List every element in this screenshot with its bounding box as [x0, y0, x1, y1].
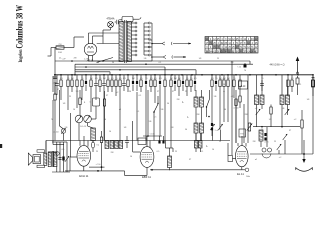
svg-text:∿700: ∿700: [95, 163, 101, 166]
block capacitor at x=86: [85, 75, 87, 91]
svg-text:2M: 2M: [103, 78, 106, 80]
svg-text:10: 10: [109, 131, 111, 133]
label 440 Ω/65 ∼ Ω: [270, 64, 285, 67]
value label: [219, 78, 222, 80]
caps row under switch: [158, 136, 164, 144]
resistor at x=82: [81, 75, 83, 100]
svg-text:30Ω: 30Ω: [58, 52, 62, 54]
svg-text:2M: 2M: [245, 114, 248, 116]
wires above right IF: [257, 75, 288, 95]
junction dots on rails: [71, 60, 147, 70]
IF coil pair at x194 above output: [195, 133, 203, 152]
mains switch contacts: [149, 40, 153, 58]
trimmer circle on output column: [56, 152, 60, 156]
svg-text:0.1: 0.1: [139, 95, 142, 97]
value label: [107, 78, 109, 80]
IF transformer T3 primary: [255, 95, 259, 105]
svg-text:0.5: 0.5: [119, 78, 122, 80]
resistor at x=100: [99, 75, 101, 92]
resistor at x=171: [170, 75, 172, 96]
long vertical x137: [136, 92, 138, 141]
svg-text:5: 5: [86, 78, 87, 80]
svg-text:2M: 2M: [231, 62, 234, 64]
parts/voltage table: [205, 37, 258, 54]
svg-text:70: 70: [244, 70, 246, 72]
trimmer with arrow (C+40): [53, 90, 65, 141]
IF T2 lower pair primary: [194, 123, 198, 133]
IF transformer T2 primary: [194, 97, 198, 107]
capacitor next to lamp: [115, 20, 122, 24]
svg-text:10: 10: [104, 119, 106, 121]
svg-text:10: 10: [223, 84, 225, 86]
tube2 wires: [133, 121, 150, 175]
junction dots on bus: [54, 74, 314, 76]
value label: [170, 78, 173, 80]
value label: [174, 78, 177, 80]
svg-text:10: 10: [224, 109, 226, 111]
value label: [164, 78, 166, 80]
svg-text:25: 25: [164, 78, 166, 80]
label EBF11: [142, 175, 151, 179]
tube3 base circle: [242, 168, 249, 172]
tube heater wires down: [89, 56, 93, 61]
resistor at x=313: [312, 75, 314, 96]
svg-text:0.1: 0.1: [291, 78, 294, 80]
svg-text:0.1: 0.1: [111, 78, 114, 80]
svg-text:σ1: σ1: [59, 58, 61, 60]
svg-text:∿2F: ∿2F: [61, 58, 66, 61]
svg-text:∿Ω: ∿Ω: [96, 144, 100, 147]
capacitor C-left: [53, 77, 58, 85]
svg-text:10: 10: [107, 78, 109, 80]
value label: [60, 78, 63, 80]
svg-text:1/4: 1/4: [307, 99, 310, 101]
resistor at x=234: [233, 75, 235, 98]
value label: [312, 78, 315, 80]
field coil: [44, 153, 47, 165]
resistor at x=179: [178, 75, 180, 96]
electrolytic can: [89, 98, 99, 113]
svg-text:1M: 1M: [227, 78, 230, 80]
IF transformer T4 secondary: [286, 95, 290, 105]
svg-text:∿2: ∿2: [231, 95, 234, 98]
resistor at x=292: [291, 75, 293, 92]
wire gang to coil: [79, 113, 102, 141]
value label: [233, 78, 235, 80]
speaker magnet block: [33, 155, 41, 164]
svg-text:5: 5: [240, 78, 241, 80]
fuse above transformer: [122, 17, 141, 23]
main HT bus y74.8: [54, 74, 313, 76]
resistor at x=68: [67, 75, 69, 110]
output transformer core: [52, 151, 53, 167]
svg-text:1M: 1M: [223, 78, 226, 80]
svg-text:70: 70: [261, 78, 263, 80]
coil top wires: [166, 141, 174, 153]
svg-text:50: 50: [167, 103, 169, 105]
black caps right: [264, 133, 266, 141]
earth arc symbol: [296, 168, 313, 172]
resistor at x=212: [211, 75, 213, 122]
label L mid: [187, 115, 189, 119]
voltage selector taps (left column): [132, 22, 138, 56]
svg-text:σ1: σ1: [119, 109, 121, 111]
svg-text:2M: 2M: [197, 114, 200, 116]
svg-text:ECH 11: ECH 11: [79, 174, 89, 178]
switch S2: [206, 90, 210, 117]
value label: [95, 78, 98, 80]
svg-text:∿2: ∿2: [255, 107, 258, 110]
mains connector upper lead: [152, 42, 191, 45]
resistor at x=128: [127, 75, 129, 92]
left speaker feed wires: [45, 141, 47, 153]
svg-text:25: 25: [185, 91, 187, 93]
output network verticals: [52, 142, 70, 172]
rail net2 y64: [75, 63, 253, 65]
resistor box x302: [301, 110, 303, 154]
capacitor under antenna: [296, 76, 299, 95]
value label: [178, 78, 181, 80]
svg-text:50: 50: [112, 62, 114, 64]
svg-text:EL 11: EL 11: [237, 172, 244, 176]
voltage selector taps (right column): [144, 22, 150, 56]
block capacitor at x=160: [159, 75, 161, 91]
svg-text:5: 5: [183, 78, 184, 80]
svg-text:2M: 2M: [170, 78, 173, 80]
svg-text:0.5: 0.5: [62, 149, 65, 151]
trimmer arrows right IF: [256, 109, 290, 115]
svg-text:0.3: 0.3: [211, 78, 214, 80]
svg-text:70: 70: [215, 78, 217, 80]
rail net4 y69.8: [75, 70, 196, 75]
tuning gang section 2: [84, 115, 92, 123]
selector wiper wire: [150, 23, 152, 55]
IF T2 lower secondary: [200, 123, 204, 133]
svg-text:0.5: 0.5: [157, 151, 160, 153]
lower coil right: [259, 130, 263, 141]
value label: [57, 78, 58, 80]
pilot lamp: [103, 22, 114, 37]
scattered value labels: [51, 58, 309, 162]
svg-text:Ingelen: Ingelen: [19, 49, 24, 62]
title text Ingelen Columbus 38 W (vertical): [14, 5, 24, 63]
svg-text:∿2: ∿2: [294, 118, 297, 121]
svg-text:50: 50: [129, 91, 131, 93]
right edge column: [311, 75, 314, 154]
block capacitor at x=137: [136, 75, 138, 91]
svg-text:5: 5: [137, 78, 138, 80]
value label: [261, 78, 263, 80]
svg-text:2M: 2M: [253, 141, 256, 143]
resistor oval near tube1: [91, 141, 99, 153]
resistor at x=288: [287, 75, 289, 96]
svg-text:440 Ω/6δ = Ω: 440 Ω/6δ = Ω: [270, 64, 285, 67]
coil pair A above tube2: [105, 141, 114, 149]
svg-text:2M: 2M: [74, 58, 77, 60]
cap above tube2: [125, 136, 129, 148]
svg-text:0.5: 0.5: [95, 78, 98, 80]
power transformer primary winding: [119, 22, 123, 62]
IF wires: [196, 90, 202, 141]
component with arrow right of TR6: [247, 123, 252, 131]
rail y154 right: [250, 153, 313, 155]
value label: [137, 78, 138, 80]
value label: [115, 78, 117, 80]
cap in output network: [58, 156, 69, 162]
svg-text:=5dB: =5dB: [53, 83, 58, 85]
rail y126.7 right: [253, 126, 300, 128]
wires to jack: [261, 127, 267, 147]
value label: [159, 78, 162, 80]
value label: [154, 78, 157, 80]
long vertical x160: [159, 91, 161, 137]
svg-text:0.3: 0.3: [60, 78, 63, 80]
block capacitor at x=133: [132, 75, 134, 91]
resistor at x=116: [115, 75, 117, 96]
capacitor at x=124: [122, 75, 126, 91]
long bottom wire (stepped): [65, 169, 242, 175]
antenna arrow: [296, 57, 300, 75]
svg-text:σ+4Ω: σ+4Ω: [53, 132, 59, 134]
svg-text:70: 70: [145, 78, 147, 80]
svg-text:70: 70: [97, 62, 99, 64]
svg-text:25: 25: [67, 78, 69, 80]
value label: [223, 78, 226, 80]
value label: [186, 78, 188, 80]
svg-text:∿2: ∿2: [221, 78, 224, 81]
rail net3 y67: [75, 67, 165, 75]
power transformer secondary winding: [127, 22, 131, 62]
svg-text:1/4: 1/4: [63, 103, 66, 105]
diode arrow right of jack: [264, 142, 281, 155]
rail net5 y71.8: [75, 72, 110, 75]
output transformer winding 1: [48, 152, 51, 167]
svg-text:∿2: ∿2: [279, 156, 282, 159]
svg-text:50: 50: [190, 78, 192, 80]
svg-text:1M: 1M: [174, 78, 177, 80]
svg-text:στΩ5: στΩ5: [264, 142, 268, 144]
speaker frame top: [37, 150, 44, 152]
svg-text:70: 70: [51, 119, 53, 121]
svg-text:1/4: 1/4: [124, 127, 127, 129]
ground lead: [303, 140, 305, 159]
capacitor at x=104: [102, 75, 106, 141]
box component: [138, 138, 146, 145]
value label: [119, 78, 122, 80]
svg-text:0.1: 0.1: [299, 84, 302, 86]
resistor at x=72: [71, 75, 73, 92]
svg-text:10: 10: [212, 149, 214, 151]
value label: [86, 78, 87, 80]
tube3 wires: [238, 136, 246, 170]
svg-text:5: 5: [128, 78, 129, 80]
svg-text:0.1: 0.1: [150, 78, 153, 80]
ground arrow: [302, 159, 305, 163]
speaker frame bottom: [37, 165, 44, 167]
rectifier tube AZ12: [84, 41, 96, 56]
component left of tube3: [228, 143, 236, 162]
svg-text:0.3: 0.3: [159, 78, 162, 80]
block capacitor at x=146: [145, 75, 147, 141]
svg-text:10: 10: [130, 156, 132, 158]
resistor at x=224: [223, 75, 225, 92]
svg-text:5: 5: [57, 78, 58, 80]
label EL11: [237, 172, 244, 176]
rail risers: [75, 61, 250, 75]
wire x148 down: [147, 90, 149, 137]
capacitor at x=96: [94, 75, 98, 100]
svg-text:4TB/4A: 4TB/4A: [107, 18, 115, 21]
long vertical x171: [170, 96, 172, 148]
wire left column down: [54, 76, 56, 95]
edge mark: [0, 144, 2, 148]
svg-text:BZ ℓ 25 Ω 5 Ω Ω 317 25 42 6: BZ ℓ 25 Ω 5 Ω Ω 317 25 42 6: [206, 50, 257, 53]
resistor at x=108: [107, 75, 109, 92]
capacitor at x=262: [260, 75, 264, 91]
value label: [71, 78, 74, 80]
resistor at x=151: [150, 75, 152, 92]
resistor on x101: [100, 137, 102, 163]
value label: [77, 78, 78, 80]
value label: [291, 78, 294, 80]
value label: [140, 78, 143, 80]
value label: [215, 78, 217, 80]
resistor at x=141: [140, 75, 142, 92]
svg-text:25: 25: [261, 129, 263, 131]
resistor between: [270, 105, 272, 127]
long vertical x224: [223, 91, 225, 122]
IF transformer T3 secondary: [260, 95, 264, 105]
value label: [90, 78, 93, 80]
block capacitor at x=216: [215, 75, 217, 91]
wires down to output tube: [232, 61, 248, 155]
svg-text:0.3: 0.3: [123, 78, 126, 80]
svg-text:σ1: σ1: [255, 159, 257, 161]
svg-text:25: 25: [186, 78, 188, 80]
L labels: [182, 100, 208, 148]
value label: [123, 78, 126, 80]
svg-text:2M: 2M: [178, 78, 181, 80]
label ECH11: [79, 174, 89, 178]
value label: [240, 78, 241, 80]
svg-text:1M: 1M: [71, 78, 74, 80]
black caps left of TR6: [211, 122, 219, 136]
resistor at x=240: [239, 75, 241, 90]
svg-text:Σ+Ω: Σ+Ω: [215, 130, 219, 132]
resistor R oscillator: [79, 90, 86, 115]
svg-text:σ/104: σ/104: [233, 108, 239, 110]
IF transformer T4 primary: [280, 95, 284, 105]
svg-text:5: 5: [77, 78, 78, 80]
value label: [128, 78, 129, 80]
resistor at x=77: [76, 75, 78, 108]
value label: [67, 78, 69, 80]
svg-text:0.1: 0.1: [154, 78, 157, 80]
svg-text:25: 25: [274, 141, 276, 143]
svg-text:2M: 2M: [171, 127, 174, 129]
svg-text:∿2: ∿2: [116, 91, 119, 94]
IF/AF tube EBF11: [140, 147, 154, 168]
value label: [132, 78, 135, 80]
wire x155 down: [153, 112, 155, 141]
resistor R-left-low: [54, 82, 56, 141]
resistor at x=220: [219, 75, 221, 130]
value label: [150, 78, 153, 80]
svg-text:10: 10: [73, 109, 75, 111]
IF transformer T2 secondary: [200, 97, 204, 107]
svg-text:70: 70: [233, 78, 235, 80]
resistor at x=61: [60, 75, 62, 100]
variable arrows mid: [210, 124, 223, 141]
value label: [194, 78, 197, 80]
slanted cord wire: [97, 58, 114, 63]
output transformer winding 2: [54, 152, 57, 167]
label 1.2F: [61, 58, 89, 61]
rail y140.5: [46, 140, 230, 142]
mains connector lower lead: [153, 55, 186, 58]
wires right IF down: [257, 105, 288, 127]
value label: [103, 78, 106, 80]
rail y136 short: [143, 133, 162, 137]
rail net1 y61: [55, 60, 250, 62]
switch box 6Ω: [239, 81, 248, 89]
resistor at x=191: [190, 75, 192, 92]
label AZ12: [87, 60, 94, 63]
svg-text:0.1: 0.1: [201, 151, 204, 153]
resistor at x=91: [90, 75, 92, 112]
value label: [99, 78, 101, 80]
value label: [111, 78, 114, 80]
resistor at x=112: [111, 75, 113, 92]
trimmer arrow lower right: [283, 134, 288, 154]
svg-text:1M: 1M: [90, 78, 93, 80]
resistor at x=155: [154, 75, 156, 103]
output tube EL11: [236, 146, 249, 167]
svg-text:0.1: 0.1: [159, 62, 162, 64]
block capacitor at x=175: [174, 75, 176, 91]
value label: [211, 78, 214, 80]
svg-text:50: 50: [185, 129, 187, 131]
block capacitor at x=195: [194, 75, 196, 91]
label 4TB/4A above pilot lamp: [107, 18, 115, 21]
block capacitor at x=183: [182, 75, 184, 91]
capacitor on rail x245: [237, 63, 246, 68]
svg-text:1/4: 1/4: [269, 119, 272, 121]
speaker cone: [28, 153, 32, 165]
triode-hexode tube ECH11: [77, 145, 91, 166]
value label: [183, 78, 184, 80]
svg-text:∿100: ∿100: [149, 133, 155, 136]
wires from tube anodes to transformer: [89, 33, 120, 44]
svg-text:0.1: 0.1: [137, 111, 140, 113]
resistor R1 (mains dropper) with leads: [51, 44, 74, 54]
tuning gang section 1: [75, 115, 83, 123]
tube1 anode line: [89, 163, 105, 172]
svg-text:0.5: 0.5: [140, 78, 143, 80]
value label: [190, 78, 192, 80]
wire from R1 up and right: [48, 37, 85, 56]
svg-text:1/4×1F: 1/4×1F: [80, 125, 87, 128]
box TR6: [239, 129, 246, 137]
svg-text:25: 25: [96, 151, 98, 153]
svg-text:1.2F: 1.2F: [84, 59, 89, 61]
phone jack sockets: [262, 148, 272, 158]
value label: [81, 78, 83, 80]
resistor R right: [103, 91, 105, 141]
resistor at x=187: [186, 75, 188, 96]
value label: [288, 78, 289, 80]
value label: [145, 78, 147, 80]
